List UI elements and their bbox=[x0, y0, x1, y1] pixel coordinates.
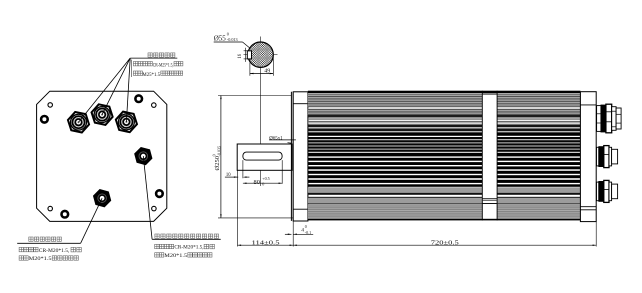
dim 16 bbox=[244, 50, 252, 52]
svg-text:CR-M25*1.5,: CR-M25*1.5, bbox=[153, 63, 174, 68]
svg-text:+0.5: +0.5 bbox=[262, 176, 269, 181]
gland G4 M20 bbox=[135, 148, 152, 165]
svg-text:720±0.5: 720±0.5 bbox=[431, 239, 459, 246]
screws bbox=[41, 116, 48, 123]
svg-text:49: 49 bbox=[264, 68, 270, 74]
side view shaft bbox=[237, 144, 292, 170]
svg-text:114±0.5: 114±0.5 bbox=[252, 240, 280, 247]
gland G5 M20 bbox=[94, 190, 111, 207]
svg-text:0: 0 bbox=[227, 31, 229, 36]
rear gland mid M20 bbox=[597, 147, 599, 166]
svg-text:-0.035: -0.035 bbox=[216, 146, 221, 156]
svg-text:0: 0 bbox=[262, 182, 264, 187]
side keyway slot bbox=[243, 152, 282, 160]
svg-text:Ø55: Ø55 bbox=[214, 35, 227, 43]
label: encoder lead bbox=[17, 242, 80, 244]
svg-text:CR-M20*1.5,: CR-M20*1.5, bbox=[174, 245, 204, 251]
svg-text:M20*1.5: M20*1.5 bbox=[164, 253, 187, 259]
finned body bbox=[308, 91, 581, 94]
rear gland bottom M20 bbox=[597, 182, 599, 201]
svg-text:-0.013: -0.013 bbox=[227, 37, 238, 42]
svg-text:80: 80 bbox=[254, 179, 260, 186]
flange bbox=[290, 92, 292, 221]
svg-text:4: 4 bbox=[301, 228, 304, 234]
clamp band bbox=[481, 91, 483, 221]
label: motor power line bbox=[148, 53, 152, 57]
svg-text:M25*1.5: M25*1.5 bbox=[142, 72, 160, 78]
svg-text:Ø250: Ø250 bbox=[214, 156, 221, 170]
svg-text:Ø65x1: Ø65x1 bbox=[269, 137, 283, 142]
rear housing cap bbox=[580, 92, 596, 222]
dim 80 bbox=[281, 160, 283, 184]
rear gland top M25 bbox=[597, 106, 601, 132]
shaft section circle bbox=[260, 37, 262, 187]
dim O250 bbox=[218, 95, 291, 97]
dim 114 and 720 bbox=[237, 170, 239, 246]
svg-text:16: 16 bbox=[238, 53, 243, 58]
gland G2 M25 bbox=[92, 104, 113, 125]
gland G1 M25 bbox=[68, 112, 89, 133]
front view plate bbox=[37, 91, 167, 221]
svg-text:CR-M20*1.5,: CR-M20*1.5, bbox=[39, 248, 70, 254]
svg-text:0: 0 bbox=[305, 224, 307, 229]
gland G3 M25 bbox=[116, 112, 137, 133]
keyway notch bbox=[247, 51, 251, 59]
corner holes bbox=[48, 103, 53, 108]
svg-text:M20*1.5: M20*1.5 bbox=[29, 256, 52, 262]
label: brake/temp sensor lead bbox=[152, 238, 221, 240]
leader lines top label bbox=[79, 58, 131, 122]
dim 49 bbox=[249, 63, 251, 76]
front housing box bbox=[293, 92, 308, 221]
